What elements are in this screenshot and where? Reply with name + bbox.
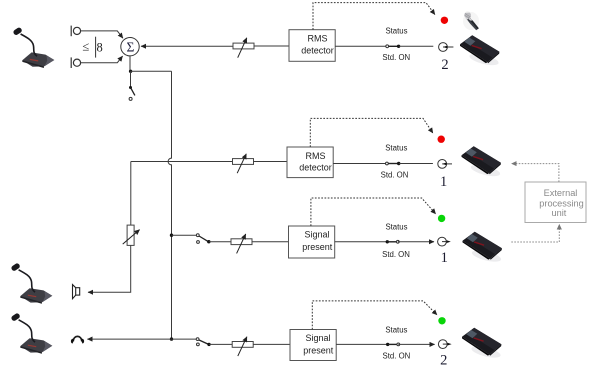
wire: RMS row2 to status switch	[333, 163, 385, 165]
status switch row 2	[386, 162, 401, 165]
open switch below summer	[129, 71, 135, 100]
svg-text:Std. ON: Std. ON	[382, 250, 410, 259]
dashed wire: row3 receiver to external unit input	[511, 224, 559, 242]
svg-text:RMS: RMS	[306, 151, 326, 161]
attenuator row 3	[231, 234, 252, 253]
desk microphone 3 (headphone row)	[10, 312, 52, 353]
wire: top connector to summer	[81, 31, 123, 38]
svg-text:Status: Status	[385, 222, 407, 231]
row 4: junction dot on bus end	[170, 337, 173, 340]
LED green row 3	[438, 215, 445, 222]
dashed status line row 3 to LED	[311, 198, 436, 226]
wire: switch to attenuator row 3	[209, 241, 231, 243]
selector switch row 4	[196, 338, 210, 346]
svg-text:Σ: Σ	[126, 40, 134, 55]
dashed wire: external unit output to row2 receiver	[512, 164, 559, 182]
svg-text:2: 2	[441, 57, 448, 73]
wire: bottom connector to summer	[81, 56, 123, 63]
LED red row 1	[441, 17, 448, 24]
wire: box row3 to status switch	[335, 241, 386, 243]
attenuator row 2	[233, 154, 254, 173]
wire: row1 from attenuator into summer (arrow)	[141, 45, 233, 47]
RMS detector box row 2	[287, 147, 333, 178]
wire: RMS row1 to status switch	[335, 45, 386, 47]
svg-text:unit: unit	[551, 208, 566, 218]
label "≤ | 8"	[82, 37, 102, 58]
svg-text:≤: ≤	[82, 40, 89, 54]
mic input connector bottom (row 1)	[71, 57, 80, 68]
svg-text:processing: processing	[539, 198, 583, 208]
status switch row 1 (circle left, dot right)	[386, 45, 400, 48]
summing node (sigma)	[121, 38, 139, 56]
svg-text:Signal: Signal	[304, 230, 329, 240]
wire: switch to jack row 2	[399, 163, 433, 165]
headphones icon	[71, 336, 84, 343]
vertical attenuator (speaker feed)	[123, 225, 140, 245]
wire: attenuator row2 to RMS box	[254, 161, 288, 163]
handheld microphone (row 1 top right)	[463, 11, 479, 30]
wire: switch to attenuator row 4	[209, 343, 232, 345]
wire: junction to bus (horizontal)	[131, 70, 172, 72]
wire: attenuator row1 to RMS detector	[254, 45, 289, 47]
LED green row 4	[438, 317, 445, 324]
selector switch row 3	[196, 234, 210, 244]
attenuator row 4	[232, 337, 253, 356]
svg-text:Std. ON: Std. ON	[382, 53, 410, 62]
wireless receiver unit row 3	[463, 232, 503, 264]
jack socket row 4	[438, 340, 451, 349]
svg-text:1: 1	[440, 174, 447, 190]
dashed status line row 2 to LED	[310, 118, 433, 147]
svg-text:present: present	[303, 346, 334, 356]
wire: left branch down from row2 corner	[130, 162, 132, 226]
jack socket row 3	[438, 237, 451, 246]
svg-text:Std. ON: Std. ON	[381, 171, 409, 180]
RMS detector box row 1	[289, 30, 335, 62]
desk microphone 1 (top left)	[12, 27, 54, 68]
svg-text:RMS: RMS	[308, 34, 328, 44]
status switch row 4	[386, 343, 400, 346]
svg-text:Std. ON: Std. ON	[383, 351, 411, 360]
svg-text:Status: Status	[385, 144, 407, 153]
row 3: junction dot on bus	[170, 234, 173, 237]
wire: box row4 to status switch	[336, 343, 386, 345]
Signal present box row 3	[289, 226, 335, 258]
Signal present box row 4	[290, 330, 336, 361]
svg-text:8: 8	[96, 40, 102, 54]
External processing unit box	[525, 182, 586, 223]
jack socket row 2	[438, 160, 452, 169]
wireless receiver unit row 4	[462, 328, 502, 360]
row 2: wire from corner to attenuator (passes under hop)	[131, 161, 233, 163]
svg-text:detector: detector	[301, 45, 334, 55]
wire: attenuator row4 to Signal present box	[253, 343, 290, 345]
wire: switch to jack row 1	[399, 45, 434, 47]
wire: bus to row3 switch	[172, 234, 197, 236]
svg-text:External: External	[544, 188, 578, 198]
svg-text:present: present	[302, 242, 333, 252]
desk microphone 2 (speaker row)	[10, 262, 52, 303]
attenuator row 1	[233, 38, 254, 58]
LED red row 2	[438, 136, 445, 143]
svg-text:Status: Status	[385, 326, 407, 335]
wire: attenuator down and left to speaker	[88, 245, 131, 292]
dashed status line row 4 to LED	[312, 301, 437, 330]
wire: switch to jack row 3 with arrow	[398, 241, 434, 243]
svg-text:detector: detector	[299, 163, 332, 173]
wire: attenuator row3 to Signal present box	[252, 241, 289, 243]
svg-text:Signal: Signal	[305, 333, 330, 343]
jack socket row 1	[439, 43, 454, 52]
svg-text:2: 2	[440, 353, 447, 369]
mic input connector top (row 1)	[71, 26, 80, 37]
wireless receiver unit row 2	[462, 146, 502, 178]
svg-text:1: 1	[441, 250, 448, 266]
junction dot below summer	[129, 70, 132, 73]
status switch row 3 (dot left, circle right)	[386, 240, 400, 243]
wire: switch to jack row 4 with arrow	[398, 343, 434, 345]
bus vertical wire with hop over row2	[168, 71, 171, 339]
wire: headphones arrow to switch row 4	[87, 338, 196, 340]
dashed status line row 1 to LED	[313, 3, 435, 30]
wireless receiver unit row 1	[460, 35, 500, 67]
svg-text:Status: Status	[385, 27, 407, 36]
wire: summer output down	[129, 56, 131, 71]
speaker icon	[73, 285, 80, 299]
